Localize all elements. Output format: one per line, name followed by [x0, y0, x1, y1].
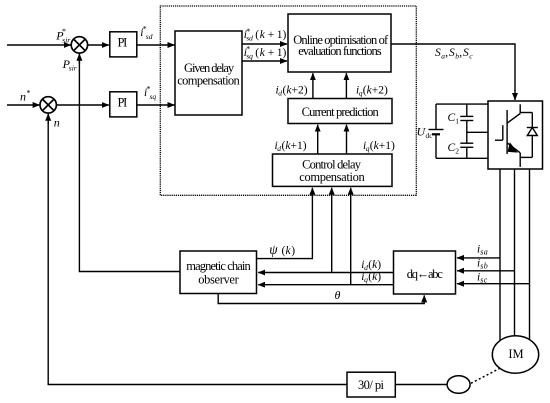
label isb — [477, 257, 488, 270]
wire encoder to 30/pi — [395, 384, 447, 386]
wire isc into dq block — [457, 283, 530, 285]
wire inverter output phase a — [499, 169, 501, 341]
svg-text:c: c — [469, 51, 473, 60]
summing junction speed loop — [40, 97, 56, 113]
wire Psir feedback from observer to sum1 — [79, 56, 180, 272]
wire inverter output phase c — [529, 169, 531, 341]
svg-text:k: k — [260, 47, 266, 59]
label isq*(k+1) — [244, 45, 287, 61]
wire between capacitors — [466, 121, 468, 144]
label id(k) — [361, 259, 381, 272]
label psi(k) — [269, 242, 295, 257]
wire isa into dq block — [457, 257, 500, 259]
label Sa Sb Sc — [435, 47, 473, 60]
svg-text:magnetic chain: magnetic chain — [186, 259, 251, 273]
wire inverter output phase b — [514, 169, 516, 337]
label isa — [477, 244, 488, 257]
wire DC midpoint tap — [467, 131, 488, 133]
capacitor C2 — [460, 143, 473, 147]
svg-text:(k+1): (k+1) — [370, 140, 395, 152]
PI controller power loop — [110, 32, 137, 57]
svg-text:sd: sd — [246, 34, 253, 43]
IGBT — [495, 104, 520, 167]
svg-text:PI: PI — [118, 36, 128, 50]
svg-text:(: ( — [255, 29, 259, 41]
svg-text:(k): (k) — [368, 271, 381, 283]
svg-text:30/ pi: 30/ pi — [358, 378, 385, 392]
DC source Udc battery — [429, 104, 444, 158]
wire online to inverter gate signals — [391, 44, 515, 91]
svg-text:ψ: ψ — [269, 242, 278, 257]
label iq(k+2) — [356, 85, 388, 98]
capacitor C1 — [460, 116, 473, 120]
svg-text:k: k — [260, 29, 266, 41]
label C1 — [448, 112, 460, 126]
svg-text:θ: θ — [335, 288, 341, 302]
svg-text:sb: sb — [480, 262, 488, 271]
freewheel diode — [520, 113, 538, 158]
svg-text:compensation: compensation — [299, 170, 365, 184]
label P*sir — [55, 27, 70, 45]
wire id(k) branch up into control delay — [331, 188, 333, 273]
wire P reference input — [7, 44, 71, 46]
wire id(k) to observer — [258, 272, 393, 274]
magnetic chain observer block — [180, 251, 257, 294]
svg-text:+: + — [268, 29, 275, 41]
svg-text:*: * — [27, 89, 31, 98]
svg-text:S: S — [463, 47, 469, 59]
svg-text:S: S — [449, 47, 455, 59]
current prediction block — [288, 99, 392, 124]
svg-text:sa: sa — [480, 248, 488, 257]
wire current prediction to online id(k+2) — [312, 73, 314, 98]
induction motor IM — [492, 336, 538, 373]
wire psi(k) feedback up into control delay — [257, 195, 313, 259]
dq to abc transform block — [394, 251, 456, 294]
svg-text:compensation: compensation — [177, 73, 240, 87]
DC link bottom wire — [436, 157, 488, 159]
label iq(k) — [361, 271, 381, 284]
svg-text:PI: PI — [118, 96, 128, 110]
svg-text:(k): (k) — [368, 259, 381, 271]
encoder — [447, 376, 470, 394]
label Psir — [62, 57, 77, 73]
wire control delay to current prediction id(k+1) — [317, 125, 319, 154]
svg-text:1: 1 — [455, 117, 459, 126]
label id(k+1) — [275, 140, 307, 153]
svg-text:Current prediction: Current prediction — [302, 105, 380, 119]
label isd*(k+1) — [244, 27, 287, 43]
svg-text:IM: IM — [508, 347, 523, 361]
control delay compensation block — [273, 154, 393, 186]
svg-text:sir: sir — [69, 64, 77, 73]
svg-text:observer: observer — [198, 272, 239, 286]
wire theta from observer to dq block — [218, 294, 424, 304]
wire capacitor branch bottom — [466, 147, 468, 158]
given delay compensation block — [175, 31, 242, 115]
svg-text:sd: sd — [146, 32, 153, 41]
svg-text:(k+1): (k+1) — [282, 140, 307, 152]
svg-text:1): 1) — [277, 47, 287, 59]
label id(k+2) — [276, 85, 308, 98]
wire isb into dq block — [457, 270, 515, 272]
svg-text:sc: sc — [480, 276, 488, 285]
svg-text:n: n — [54, 115, 60, 129]
label n* — [20, 89, 31, 104]
svg-text:sq: sq — [150, 92, 157, 101]
label isc — [477, 272, 488, 285]
svg-text:(k+2): (k+2) — [283, 85, 308, 97]
wire sum1 to PI1 — [88, 44, 109, 46]
wire isq* (k+1) — [242, 60, 287, 62]
svg-text:): ) — [291, 245, 295, 257]
DC link top wire — [436, 103, 488, 105]
wire capacitor branch top — [466, 104, 468, 116]
svg-text:sir: sir — [62, 36, 70, 45]
dotted shaft coupling — [471, 369, 500, 384]
svg-text:,: , — [445, 47, 448, 59]
label isq* — [144, 85, 156, 102]
wire iq(k) branch up into control delay — [350, 188, 352, 285]
label isd* — [140, 25, 152, 41]
svg-text:,: , — [459, 47, 462, 59]
inverter block — [488, 101, 543, 169]
svg-text:1): 1) — [277, 29, 287, 41]
wire sum2 to PI2 — [56, 104, 108, 106]
label C2 — [448, 142, 460, 156]
svg-text:2: 2 — [455, 146, 459, 155]
svg-text:evaluation functions: evaluation functions — [298, 44, 381, 58]
svg-text:sq: sq — [246, 51, 253, 60]
svg-text:(: ( — [255, 47, 259, 59]
label iq(k+1) — [363, 140, 395, 153]
wire current prediction to online iq(k+2) — [345, 73, 347, 98]
svg-text:dc: dc — [426, 131, 434, 140]
wire n speed feedback to sum2 — [48, 116, 347, 385]
online optimisation block — [288, 14, 391, 72]
svg-text:S: S — [435, 47, 441, 59]
wire iq(k) to observer — [258, 284, 393, 286]
svg-text:n: n — [20, 90, 26, 104]
wire PI1 to given delay — [137, 44, 175, 46]
svg-text:dq←abc: dq←abc — [407, 267, 443, 281]
30/pi block — [347, 372, 395, 397]
label Udc — [417, 125, 434, 141]
dashed predictive control boundary — [160, 6, 416, 195]
svg-text:+: + — [268, 47, 275, 59]
wire speed reference input — [7, 104, 40, 106]
wire isd* (k+1) — [242, 43, 287, 45]
wire control delay to current prediction iq(k+1) — [346, 125, 348, 154]
PI controller speed loop — [110, 92, 137, 117]
summing junction power loop — [71, 37, 87, 53]
wire PI2 to given delay — [137, 104, 175, 106]
svg-text:(k+2): (k+2) — [363, 85, 388, 97]
